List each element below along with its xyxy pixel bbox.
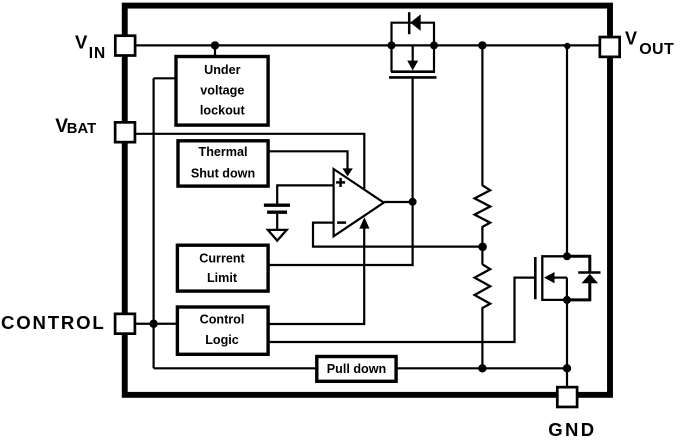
block Thermal Shutdown — [178, 141, 268, 186]
ground symbol — [268, 230, 287, 241]
op-amp U1 — [334, 169, 384, 236]
svg-text:OUT: OUT — [639, 41, 674, 58]
node Q2 source — [563, 296, 571, 304]
svg-text:V: V — [625, 29, 637, 49]
label VOUT — [625, 29, 674, 59]
diode D1 Q1 body — [408, 12, 411, 34]
svg-text:Limit: Limit — [207, 271, 238, 285]
node R divider bottom — [478, 364, 486, 372]
label VBAT — [55, 116, 96, 137]
wire gate drive vertical — [412, 77, 414, 266]
transistor Q2 NMOS pulldown — [534, 257, 537, 299]
svg-text:IN: IN — [89, 45, 106, 62]
pin CONTROL — [115, 314, 135, 334]
transistor Q1 PMOS pass — [392, 23, 435, 46]
svg-text:Control: Control — [200, 312, 245, 326]
pin VOUT — [600, 37, 620, 57]
block Control Logic — [177, 307, 268, 354]
node op-amp output — [409, 198, 417, 206]
svg-text:BAT: BAT — [67, 121, 96, 137]
node R1 top — [478, 41, 486, 49]
wire VBAT rail — [135, 134, 364, 189]
svg-text:V: V — [75, 32, 88, 53]
wire CONTROL vertical — [153, 78, 155, 368]
wire control logic to NMOS gate — [267, 278, 535, 342]
wire control logic to op-amp — [267, 227, 364, 324]
node CONTROL — [149, 320, 157, 328]
block UVLO — [176, 57, 268, 126]
node NMOS branch top — [564, 43, 570, 49]
svg-text:Shut down: Shut down — [191, 167, 255, 181]
svg-text:Current: Current — [199, 251, 245, 265]
diode D2 Q2 body — [567, 256, 590, 271]
wire pulldown right — [396, 367, 568, 369]
wire op-amp output — [384, 201, 413, 203]
svg-text:Logic: Logic — [205, 333, 239, 347]
node Q2 drain — [563, 252, 571, 260]
wire NMOS drain vertical — [566, 45, 568, 256]
resistor R2 — [475, 264, 491, 310]
wire CONTROL input — [136, 323, 179, 325]
label VIN — [75, 32, 106, 62]
wire current limit output — [267, 264, 413, 266]
block Pull down — [317, 357, 396, 382]
block Current Limit — [177, 245, 268, 291]
node feedback tap — [478, 243, 487, 252]
wire R1-R2 — [481, 229, 483, 265]
wire op-amp minus input feedback — [313, 223, 482, 247]
pin VBAT — [115, 122, 135, 142]
node Q1 right — [430, 41, 438, 49]
node GND junction — [563, 364, 571, 372]
svg-text:CONTROL: CONTROL — [1, 312, 106, 333]
svg-text:Thermal: Thermal — [199, 145, 248, 159]
wire UVLO top drop — [214, 45, 216, 58]
svg-text:Pull down: Pull down — [327, 362, 386, 376]
node Q1 left — [388, 41, 396, 49]
svg-text:voltage: voltage — [200, 83, 244, 97]
IC boundary — [125, 6, 610, 395]
wire UVLO input — [154, 77, 178, 79]
wire Thermal output to op-amp — [267, 151, 348, 169]
svg-text:lockout: lockout — [200, 104, 246, 118]
capacitor reference — [264, 203, 290, 206]
svg-text:Under: Under — [204, 63, 240, 77]
wire VOUT sense drop — [481, 45, 483, 185]
wire op-amp plus input — [277, 185, 333, 204]
pin GND — [557, 387, 577, 407]
wire R2 bottom — [481, 309, 483, 368]
resistor R1 — [475, 185, 491, 230]
wire Q2 source to GND — [566, 300, 568, 388]
node VIN-UVLO junction — [211, 41, 219, 49]
pin VIN — [115, 36, 135, 56]
wire VIN rail — [130, 44, 601, 46]
wire pulldown left — [154, 367, 318, 369]
svg-text:GND: GND — [548, 419, 596, 440]
